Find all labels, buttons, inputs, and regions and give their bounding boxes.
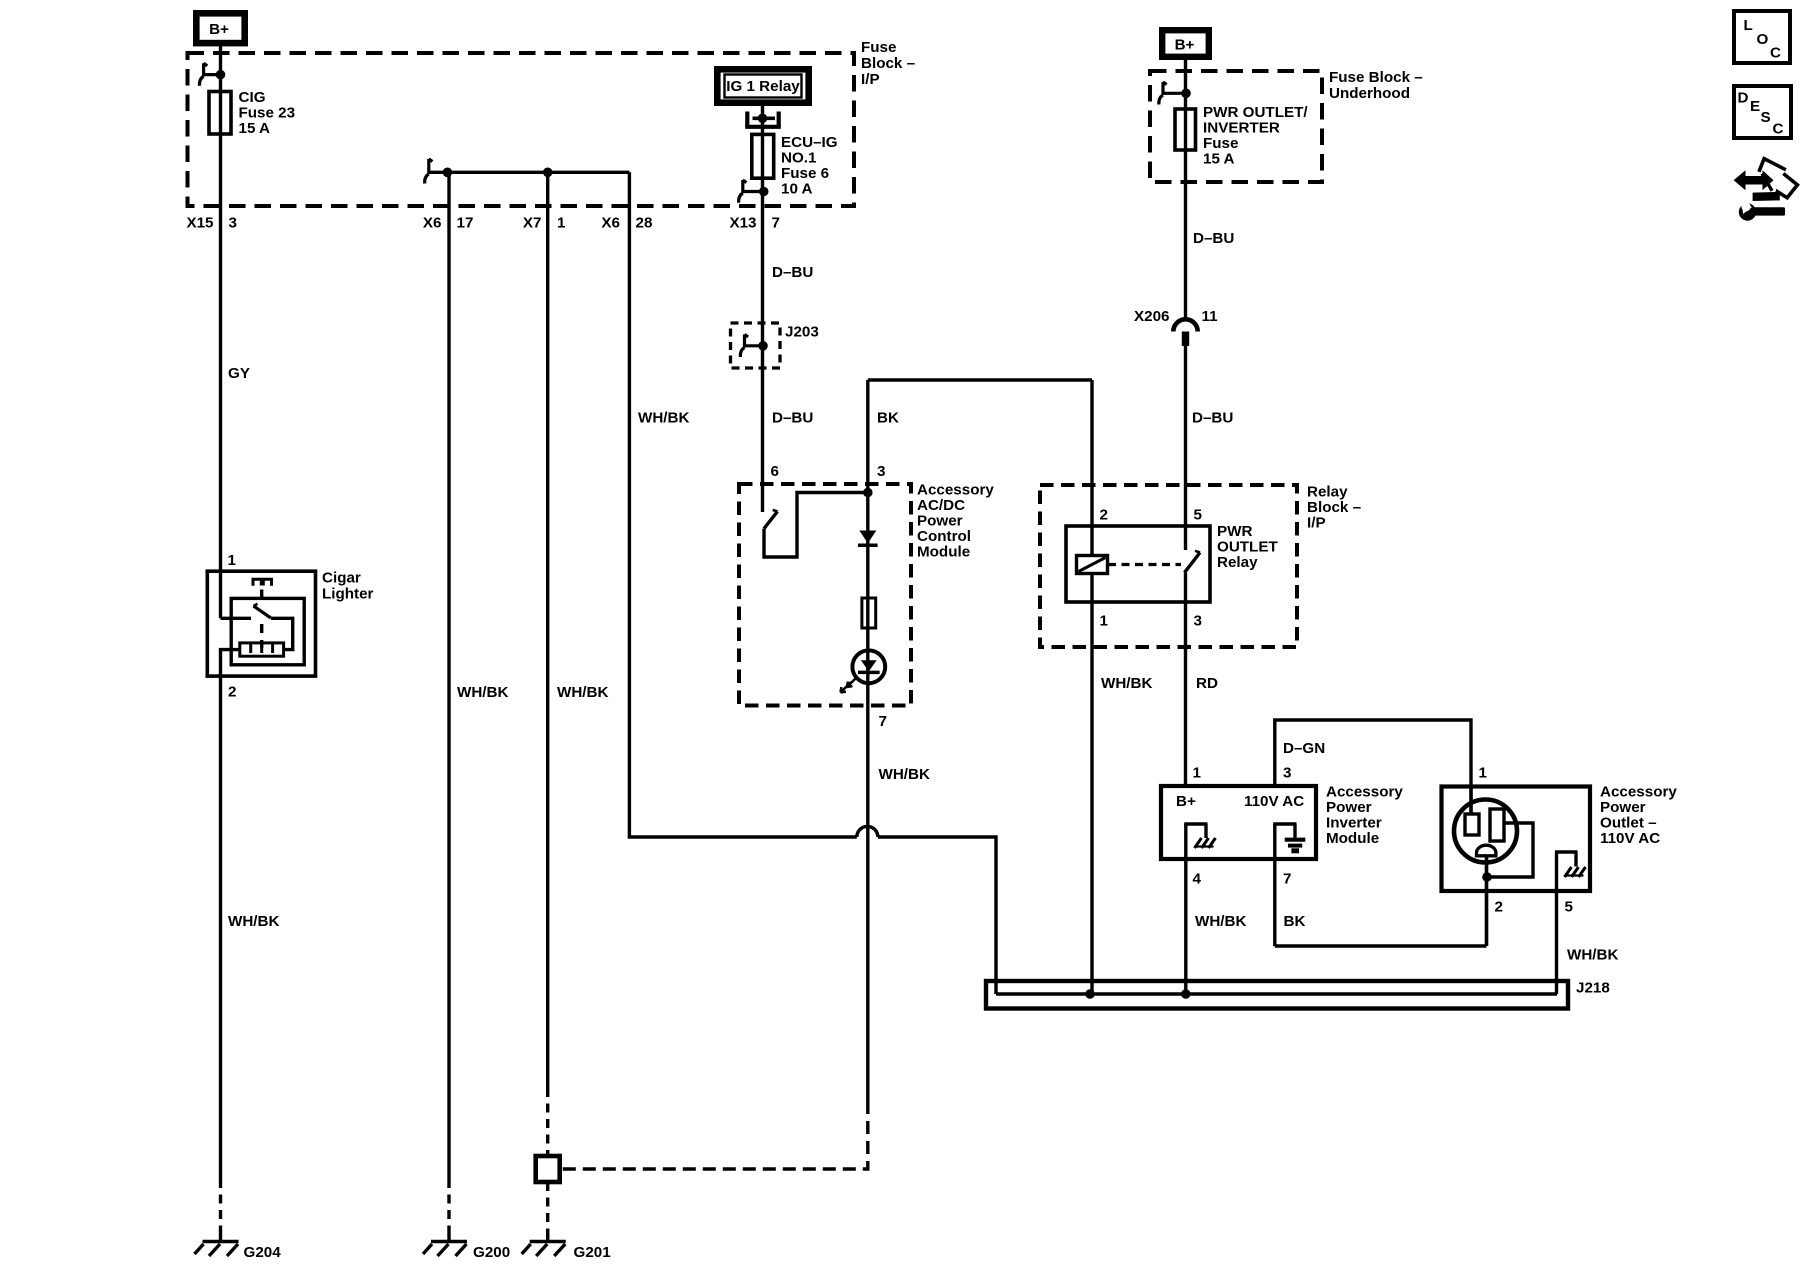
svg-text:I/P: I/P (861, 71, 880, 88)
svg-text:D–BU: D–BU (772, 410, 813, 427)
svg-text:5: 5 (1194, 507, 1203, 524)
svg-text:B+: B+ (209, 21, 229, 38)
svg-text:Accessory: Accessory (1326, 784, 1403, 801)
svg-text:C: C (1773, 121, 1784, 138)
svg-text:10 A: 10 A (781, 181, 813, 198)
svg-text:7: 7 (1283, 871, 1291, 888)
svg-text:WH/BK: WH/BK (1567, 947, 1618, 964)
svg-text:ECU–IG: ECU–IG (781, 134, 838, 151)
svg-text:Module: Module (1326, 830, 1379, 847)
svg-text:Power: Power (917, 513, 963, 530)
svg-text:Fuse 6: Fuse 6 (781, 165, 829, 182)
svg-text:WH/BK: WH/BK (879, 766, 930, 783)
svg-text:1: 1 (1193, 765, 1202, 782)
svg-text:E: E (1750, 98, 1760, 115)
svg-text:O: O (1757, 31, 1769, 48)
svg-text:3: 3 (1194, 613, 1202, 630)
svg-text:Lighter: Lighter (322, 586, 374, 603)
svg-text:X15: X15 (186, 215, 214, 232)
svg-text:L: L (1744, 17, 1753, 34)
svg-text:3: 3 (877, 463, 885, 480)
svg-text:D–BU: D–BU (1193, 230, 1234, 247)
svg-text:X7: X7 (523, 215, 542, 232)
svg-text:Cigar: Cigar (322, 570, 361, 587)
svg-text:7: 7 (879, 713, 887, 730)
svg-text:Underhood: Underhood (1329, 85, 1410, 102)
svg-text:X6: X6 (423, 215, 442, 232)
svg-text:3: 3 (1283, 765, 1291, 782)
svg-text:17: 17 (457, 215, 474, 232)
svg-text:15 A: 15 A (239, 120, 271, 137)
svg-text:D–BU: D–BU (1192, 410, 1233, 427)
svg-text:Block –: Block – (861, 55, 915, 72)
svg-text:C: C (1770, 45, 1781, 62)
svg-text:INVERTER: INVERTER (1203, 120, 1280, 137)
svg-text:G204: G204 (244, 1244, 282, 1261)
svg-text:BK: BK (1284, 913, 1306, 930)
svg-text:J203: J203 (785, 324, 819, 341)
svg-text:AC/DC: AC/DC (917, 497, 965, 514)
svg-text:RD: RD (1196, 675, 1218, 692)
svg-text:Accessory: Accessory (917, 482, 994, 499)
svg-text:PWR: PWR (1217, 523, 1252, 540)
svg-text:Module: Module (917, 544, 970, 561)
svg-text:WH/BK: WH/BK (638, 410, 689, 427)
svg-text:Inverter: Inverter (1326, 815, 1382, 832)
svg-text:3: 3 (229, 215, 237, 232)
svg-text:4: 4 (1193, 871, 1202, 888)
svg-text:1: 1 (1479, 765, 1488, 782)
svg-text:Fuse: Fuse (1203, 135, 1238, 152)
svg-text:D–GN: D–GN (1283, 740, 1325, 757)
svg-text:Relay: Relay (1217, 554, 1258, 571)
svg-text:110V AC: 110V AC (1244, 793, 1304, 810)
svg-text:Fuse Block –: Fuse Block – (1329, 69, 1423, 86)
svg-text:Fuse: Fuse (861, 39, 896, 56)
svg-text:OUTLET: OUTLET (1217, 539, 1278, 556)
svg-text:WH/BK: WH/BK (228, 913, 279, 930)
svg-text:B+: B+ (1176, 793, 1196, 810)
svg-text:X13: X13 (729, 215, 756, 232)
svg-text:2: 2 (1495, 899, 1503, 916)
svg-text:Fuse 23: Fuse 23 (239, 105, 296, 122)
svg-text:S: S (1761, 109, 1771, 126)
svg-text:GY: GY (228, 365, 250, 382)
svg-text:1: 1 (228, 552, 237, 569)
svg-text:Outlet –: Outlet – (1600, 815, 1657, 832)
svg-text:J218: J218 (1576, 980, 1610, 997)
svg-text:BK: BK (877, 410, 899, 427)
svg-text:X6: X6 (601, 215, 620, 232)
svg-text:WH/BK: WH/BK (1195, 913, 1246, 930)
svg-text:G201: G201 (574, 1244, 612, 1261)
svg-text:NO.1: NO.1 (781, 150, 817, 167)
svg-text:G200: G200 (473, 1244, 510, 1261)
svg-text:Power: Power (1326, 799, 1372, 816)
svg-text:IG 1 Relay: IG 1 Relay (726, 78, 800, 95)
svg-text:PWR OUTLET/: PWR OUTLET/ (1203, 104, 1308, 121)
svg-text:Power: Power (1600, 799, 1646, 816)
svg-text:Block –: Block – (1307, 499, 1361, 516)
svg-text:WH/BK: WH/BK (557, 684, 608, 701)
svg-text:Accessory: Accessory (1600, 784, 1677, 801)
svg-text:Control: Control (917, 528, 971, 545)
svg-text:7: 7 (772, 215, 780, 232)
svg-text:D: D (1738, 90, 1749, 107)
svg-text:B+: B+ (1175, 37, 1195, 54)
svg-text:15 A: 15 A (1203, 151, 1235, 168)
svg-text:1: 1 (557, 215, 566, 232)
svg-text:I/P: I/P (1307, 515, 1326, 532)
svg-text:WH/BK: WH/BK (457, 684, 508, 701)
svg-text:X206: X206 (1134, 308, 1169, 325)
svg-text:11: 11 (1202, 308, 1219, 325)
svg-text:2: 2 (1100, 507, 1108, 524)
svg-text:1: 1 (1100, 613, 1109, 630)
svg-text:Relay: Relay (1307, 484, 1348, 501)
svg-text:WH/BK: WH/BK (1101, 675, 1152, 692)
svg-text:28: 28 (636, 215, 653, 232)
svg-text:D–BU: D–BU (772, 264, 813, 281)
svg-text:110V AC: 110V AC (1600, 830, 1660, 847)
svg-text:5: 5 (1565, 899, 1574, 916)
svg-text:CIG: CIG (239, 89, 266, 106)
svg-text:2: 2 (228, 684, 236, 701)
svg-text:6: 6 (771, 463, 779, 480)
